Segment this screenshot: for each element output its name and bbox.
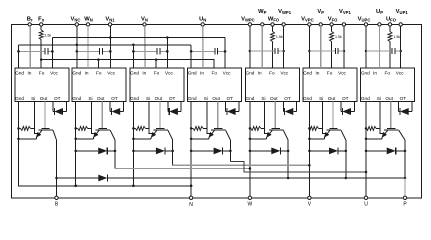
svg-text:Vcc: Vcc xyxy=(280,71,288,76)
wire emitter link Q2 xyxy=(76,138,94,140)
diode DB (brake freewheel) xyxy=(98,175,107,182)
wire U2 Fo stub xyxy=(97,58,100,68)
svg-text:Out: Out xyxy=(155,96,163,101)
terminal VWP1 xyxy=(278,9,292,26)
wire emitter link Q3 xyxy=(133,138,151,140)
svg-text:W: W xyxy=(248,202,253,208)
terminal VFO xyxy=(328,17,338,27)
wire U7 Si pin xyxy=(379,102,381,129)
diode DT7 (OT clamp) xyxy=(399,102,412,116)
terminal UN xyxy=(199,17,206,27)
svg-text:Out: Out xyxy=(328,96,336,101)
wire Si elbow Q6 xyxy=(322,128,327,133)
resistor Rs5 xyxy=(249,126,265,130)
terminal VN xyxy=(141,17,148,27)
svg-text:WFO: WFO xyxy=(268,17,280,23)
wire U4 Out to gate xyxy=(217,102,219,129)
svg-text:Si: Si xyxy=(377,96,381,101)
wire U1 Out to gate xyxy=(44,102,46,129)
diode DT6 (OT clamp) xyxy=(341,102,354,116)
svg-text:In: In xyxy=(27,71,31,76)
svg-text:Gnd: Gnd xyxy=(72,96,81,101)
terminal VP xyxy=(317,9,324,26)
wire emitter link Q1 xyxy=(19,138,37,140)
svg-text:Gnd: Gnd xyxy=(245,96,254,101)
IGBT Q6 xyxy=(324,129,346,141)
svg-text:Fo: Fo xyxy=(96,71,102,76)
wire VWPC to U5 Gnd xyxy=(249,26,252,68)
wire gnd bus to U4 Gnd xyxy=(190,45,193,68)
wire collector Q2 xyxy=(114,140,116,169)
svg-text:VFO: VFO xyxy=(328,17,338,23)
terminal WFO xyxy=(268,17,280,27)
svg-text:In: In xyxy=(258,71,262,76)
svg-text:Gnd: Gnd xyxy=(188,71,197,76)
wire WN to U2 In xyxy=(87,26,89,68)
wire U6 Si pin xyxy=(321,102,323,129)
wire U5 Si pin xyxy=(264,102,266,129)
wire emitter vertical Q2 xyxy=(74,102,77,188)
svg-text:1.5k: 1.5k xyxy=(393,35,400,39)
svg-text:In: In xyxy=(85,71,89,76)
wire collector Q5 to P row xyxy=(287,140,290,179)
svg-text:Si: Si xyxy=(146,96,150,101)
wire emitter vertical Q3 xyxy=(132,102,135,188)
svg-text:VUPC: VUPC xyxy=(358,17,371,23)
svg-text:UFO: UFO xyxy=(386,17,397,23)
diode DT5 (OT clamp) xyxy=(283,102,296,116)
svg-text:Gnd: Gnd xyxy=(303,96,312,101)
svg-text:Si: Si xyxy=(88,96,92,101)
resistor Rs3 xyxy=(132,126,149,130)
wire Br to U1 In xyxy=(29,26,31,68)
wire UN to U4 In xyxy=(202,26,204,68)
svg-text:Out: Out xyxy=(270,96,278,101)
svg-text:N: N xyxy=(189,202,193,208)
resistor Rs1 xyxy=(17,126,34,130)
wire VUPC to U7 Gnd xyxy=(365,26,368,68)
IGBT Q4 xyxy=(209,129,231,141)
svg-text:Vcc: Vcc xyxy=(223,71,231,76)
gate driver block U2 xyxy=(72,68,126,102)
wire emitter link Q7 xyxy=(366,138,382,140)
svg-text:Out: Out xyxy=(40,96,48,101)
wire Si elbow Q2 xyxy=(92,128,97,133)
wire Fo to Fo bus and U1 Fo pin xyxy=(40,40,43,69)
svg-text:1.5k: 1.5k xyxy=(44,34,51,38)
terminal WN xyxy=(84,17,93,27)
wire emitter vertical Q5 xyxy=(249,102,252,198)
gate driver block U7 xyxy=(361,68,415,102)
terminal U xyxy=(364,196,368,207)
gate driver block U5 xyxy=(245,68,299,102)
terminal Br xyxy=(27,17,33,27)
terminal UFO xyxy=(386,17,397,27)
svg-text:WP: WP xyxy=(258,9,266,15)
terminal VVPC xyxy=(301,17,314,27)
module outline border xyxy=(12,24,422,197)
wire U4 Si pin xyxy=(206,102,208,129)
wire U2 Out to gate xyxy=(101,102,103,129)
svg-text:Si: Si xyxy=(31,96,35,101)
terminal VNC xyxy=(71,17,81,27)
capacitor C3 xyxy=(132,48,168,54)
wire Si elbow Q4 xyxy=(207,128,212,133)
resistor Rs2 xyxy=(74,126,91,130)
svg-text:OT: OT xyxy=(111,96,118,101)
svg-text:VN: VN xyxy=(141,17,148,23)
wire VVPC to U6 Gnd xyxy=(308,26,311,68)
wire U5 Out to gate xyxy=(274,102,276,129)
wire emitter link Q5 xyxy=(250,138,267,140)
svg-text:In: In xyxy=(142,71,146,76)
svg-text:OT: OT xyxy=(284,96,291,101)
diode D5 xyxy=(249,148,290,155)
svg-text:Fo: Fo xyxy=(39,71,45,76)
W output bus xyxy=(115,167,251,170)
svg-text:Gnd: Gnd xyxy=(188,96,197,101)
wire vcc bus to U1 Vcc xyxy=(51,38,54,69)
svg-text:Fo: Fo xyxy=(154,71,160,76)
wire Si elbow Q5 xyxy=(265,128,270,133)
diode D4 xyxy=(190,148,232,155)
wire VUP1 to U7 Vcc xyxy=(399,26,402,68)
terminal V xyxy=(308,196,312,207)
VN1 vcc bus wire xyxy=(52,37,225,39)
svg-text:Out: Out xyxy=(212,96,220,101)
terminal N xyxy=(189,186,193,208)
svg-text:VUP1: VUP1 xyxy=(396,9,409,15)
svg-text:Fo: Fo xyxy=(385,71,391,76)
svg-text:Gnd: Gnd xyxy=(361,71,370,76)
svg-text:Vcc: Vcc xyxy=(165,71,173,76)
svg-text:VWPC: VWPC xyxy=(241,17,255,23)
resistor Rs7 xyxy=(365,126,380,130)
gate driver block U1 xyxy=(15,68,69,102)
gate driver block U3 xyxy=(130,68,184,102)
diode D7 xyxy=(365,148,407,155)
diode DT1 (OT clamp) xyxy=(53,102,66,116)
terminal Fo xyxy=(38,17,45,27)
wire WP to U5 In xyxy=(261,26,263,68)
capacitor C7 xyxy=(366,48,401,54)
wire U3 Out to gate xyxy=(159,102,161,129)
svg-text:VWP1: VWP1 xyxy=(278,9,292,15)
wire U6 Out to gate xyxy=(332,102,334,129)
wire U3 Si pin xyxy=(148,102,150,129)
V output bus xyxy=(173,164,311,167)
IGBT Q7 xyxy=(382,129,405,141)
wire Si elbow Q7 xyxy=(380,128,385,133)
terminal VN1 xyxy=(105,17,115,27)
wire collector Q4 xyxy=(229,140,231,162)
terminal VVP1 xyxy=(339,9,351,26)
svg-text:Out: Out xyxy=(97,96,105,101)
svg-text:Gnd: Gnd xyxy=(130,96,139,101)
svg-text:Vcc: Vcc xyxy=(107,71,115,76)
diode D2 xyxy=(74,148,116,155)
wire VVP1 to U6 Vcc xyxy=(343,26,346,68)
wire emitter link Q6 xyxy=(309,138,324,140)
wire emitter link Q4 xyxy=(191,138,209,140)
svg-text:Gnd: Gnd xyxy=(15,71,24,76)
svg-text:UN: UN xyxy=(199,17,206,23)
wire vcc bus to U3 Vcc xyxy=(166,36,169,68)
N bus xyxy=(19,185,193,188)
svg-text:Fo: Fo xyxy=(327,71,333,76)
diode D6 xyxy=(308,148,347,155)
wire U2 Si pin xyxy=(91,102,93,129)
svg-text:In: In xyxy=(373,71,377,76)
svg-text:VVPC: VVPC xyxy=(301,17,314,23)
wire VN to U3 In xyxy=(144,26,146,68)
svg-text:Gnd: Gnd xyxy=(15,96,24,101)
wire collector Q3 xyxy=(172,140,174,165)
wire UP to U7 In xyxy=(379,26,381,68)
wire emitter vertical Q6 xyxy=(308,102,311,198)
svg-text:Fo: Fo xyxy=(269,71,275,76)
svg-text:Fo: Fo xyxy=(38,17,45,23)
terminal P xyxy=(403,178,407,208)
svg-text:Si: Si xyxy=(204,96,208,101)
wire VWP1 to U5 Vcc xyxy=(282,26,285,68)
diode D3 xyxy=(132,148,174,155)
svg-text:Gnd: Gnd xyxy=(72,71,81,76)
wire collector Q7 to P xyxy=(404,140,407,198)
IGBT Q2 xyxy=(93,129,115,141)
terminal VWPC xyxy=(241,17,255,27)
capacitor C6 xyxy=(309,48,344,54)
wire emitter vertical Q4 xyxy=(190,102,193,188)
svg-text:Gnd: Gnd xyxy=(130,71,139,76)
resistor RUFO 1.5k xyxy=(388,26,400,68)
capacitor C4 xyxy=(190,48,226,54)
wire VN1 to U2 Vcc xyxy=(109,26,112,68)
terminal VUP1 xyxy=(396,9,409,26)
terminal W xyxy=(248,196,253,207)
terminal B xyxy=(55,178,59,208)
capacitor C2 xyxy=(76,48,112,54)
wire collector Q6 to P row xyxy=(345,140,348,179)
capacitor C5 xyxy=(250,48,284,54)
svg-text:Si: Si xyxy=(261,96,265,101)
svg-text:VNC: VNC xyxy=(71,17,81,23)
resistor RVFO 1.5k xyxy=(330,26,342,68)
VNC gnd bus wire xyxy=(19,44,192,46)
terminal VUPC xyxy=(358,17,371,27)
svg-text:Vcc: Vcc xyxy=(338,71,346,76)
svg-text:In: In xyxy=(200,71,204,76)
svg-text:VVP1: VVP1 xyxy=(339,9,351,15)
svg-text:1.5k: 1.5k xyxy=(276,35,283,39)
diode DT2 (OT clamp) xyxy=(110,102,123,116)
wire Si elbow Q3 xyxy=(149,128,154,133)
wire emitter bus Q1 xyxy=(17,102,191,186)
wire U7 Out to gate xyxy=(390,102,392,129)
wire emitter vertical Q7 xyxy=(365,102,368,198)
terminal UP xyxy=(376,9,383,26)
diode DT3 (OT clamp) xyxy=(168,102,181,116)
svg-text:U: U xyxy=(364,202,368,208)
svg-text:1.5k: 1.5k xyxy=(335,35,342,39)
svg-text:Gnd: Gnd xyxy=(245,71,254,76)
svg-text:UP: UP xyxy=(376,9,383,15)
IGBT Q1 xyxy=(36,129,57,141)
svg-text:OT: OT xyxy=(342,96,349,101)
gate driver block U4 xyxy=(188,68,242,102)
svg-text:Fo: Fo xyxy=(211,71,217,76)
IGBT Q5 xyxy=(266,129,288,141)
svg-text:Br: Br xyxy=(27,17,33,23)
P bus row xyxy=(57,177,406,179)
wire VNC down to U2 Gnd xyxy=(76,26,79,68)
resistor RWFO 1.5k xyxy=(271,26,283,68)
resistor Rs4 xyxy=(190,126,207,130)
capacitor C1 xyxy=(17,48,53,54)
U output bus xyxy=(230,162,367,174)
wire collector Q1 to B xyxy=(55,140,58,198)
svg-text:Gnd: Gnd xyxy=(303,71,312,76)
svg-text:OT: OT xyxy=(400,96,407,101)
svg-text:Si: Si xyxy=(319,96,323,101)
Fo bus wire xyxy=(41,60,214,68)
wire vcc bus to U4 Vcc xyxy=(224,38,227,69)
svg-text:Vcc: Vcc xyxy=(50,71,58,76)
svg-text:VP: VP xyxy=(317,9,324,15)
wire VP to U6 In xyxy=(320,26,322,68)
diode DT4 (OT clamp) xyxy=(226,102,239,116)
wire U3 Fo stub xyxy=(155,58,158,68)
svg-text:Out: Out xyxy=(385,96,393,101)
wire U1 Si pin xyxy=(33,102,35,129)
wire Si elbow Q1 xyxy=(34,128,39,133)
resistor Rs6 xyxy=(308,126,322,130)
resistor RF0 1.5k xyxy=(39,26,51,39)
gate driver block U6 xyxy=(303,68,357,102)
svg-text:Vcc: Vcc xyxy=(396,71,404,76)
terminal WP xyxy=(258,9,266,26)
IGBT Q3 xyxy=(151,129,173,141)
svg-text:OT: OT xyxy=(54,96,61,101)
svg-text:OT: OT xyxy=(169,96,176,101)
svg-text:OT: OT xyxy=(227,96,234,101)
wire gnd bus to U3 Gnd xyxy=(132,44,135,68)
svg-text:In: In xyxy=(315,71,319,76)
svg-text:WN: WN xyxy=(84,17,93,23)
svg-text:VN1: VN1 xyxy=(105,17,115,23)
svg-text:Gnd: Gnd xyxy=(361,96,370,101)
wire gnd bus to U1 Gnd xyxy=(17,45,20,68)
